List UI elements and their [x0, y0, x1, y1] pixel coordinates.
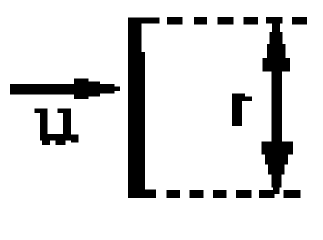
bottom arrowhead (stepped, pointing down) [262, 142, 293, 195]
top arrowhead (stepped, pointing up) [263, 21, 291, 72]
node u (input label) [34, 109, 78, 145]
double-headed vertical arrow r : shaft [271, 70, 282, 143]
arrowhead of input arrow (stepped) [74, 79, 89, 100]
node r (output label) [232, 94, 252, 127]
wire input arrow shaft [10, 84, 100, 94]
bracket [ left wall [128, 18, 159, 199]
wire top dashed line [167, 17, 307, 25]
wire bottom dashed line [166, 190, 300, 198]
